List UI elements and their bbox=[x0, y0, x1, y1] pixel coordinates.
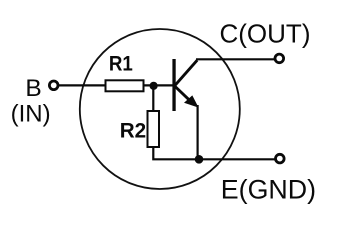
transistor Q1 base bar bbox=[172, 59, 175, 111]
terminal E bbox=[276, 154, 285, 163]
svg-text:C(OUT): C(OUT) bbox=[220, 18, 311, 48]
svg-text:B: B bbox=[25, 75, 41, 102]
terminal B bbox=[49, 81, 58, 90]
svg-text:R1: R1 bbox=[109, 53, 133, 76]
wire junction to R2 bbox=[152, 86, 154, 112]
wire R2 to emitter net bbox=[153, 147, 200, 159]
wire collector to C terminal bbox=[196, 58, 275, 60]
wire R1 to base bbox=[145, 84, 174, 86]
wire emitter to E terminal bbox=[199, 158, 275, 160]
transistor envelope circle bbox=[80, 29, 240, 189]
resistor R1 bbox=[106, 80, 144, 91]
node base junction bbox=[150, 82, 158, 90]
wire emitter down bbox=[197, 105, 199, 159]
svg-text:E(GND): E(GND) bbox=[221, 175, 316, 205]
terminal C bbox=[275, 54, 284, 63]
node emitter junction bbox=[195, 155, 204, 164]
wire base input bbox=[59, 84, 106, 86]
svg-text:R2: R2 bbox=[120, 119, 146, 142]
transistor Q1 emitter line with arrow bbox=[175, 86, 199, 108]
transistor Q1 collector line bbox=[175, 60, 198, 86]
resistor R2 bbox=[148, 111, 160, 147]
svg-text:(IN): (IN) bbox=[11, 101, 51, 128]
